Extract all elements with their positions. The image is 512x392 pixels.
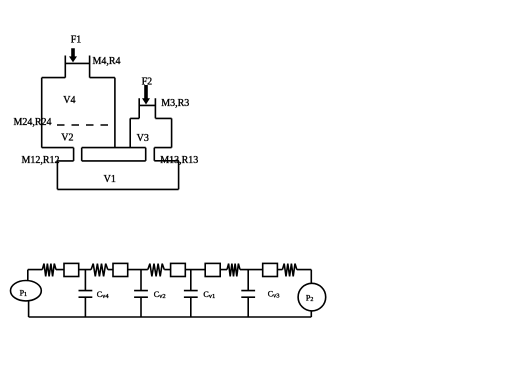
svg-text:F2: F2 [142, 76, 153, 87]
svg-text:V1: V1 [104, 174, 116, 185]
svg-text:M4,R4: M4,R4 [93, 56, 121, 67]
svg-text:V2: V2 [61, 132, 73, 143]
svg-text:F1: F1 [71, 35, 82, 46]
svg-text:M3,R3: M3,R3 [161, 98, 189, 109]
svg-text:M13,R13: M13,R13 [160, 155, 198, 166]
svg-text:V4: V4 [63, 95, 75, 106]
svg-text:M24,R24: M24,R24 [14, 117, 52, 128]
svg-text:V3: V3 [137, 133, 149, 144]
svg-text:M12,R12: M12,R12 [22, 155, 60, 166]
